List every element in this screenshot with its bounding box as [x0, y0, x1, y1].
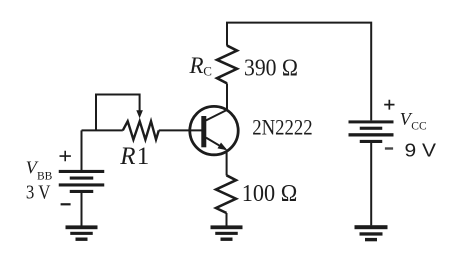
resistor RC — [217, 46, 237, 84]
svg-text:2N2222: 2N2222 — [252, 114, 312, 139]
battery VBB 3V — [59, 170, 105, 193]
wire: emitter to RE — [226, 152, 228, 175]
svg-text:100 Ω: 100 Ω — [242, 180, 297, 207]
svg-text:9 V: 9 V — [405, 140, 437, 160]
wire: top rail from RC to VCC — [227, 23, 371, 121]
plus symbol VCC — [384, 100, 394, 110]
rheostat R1 zigzag — [123, 121, 159, 139]
transistor Q1 2N2222: base bar — [201, 116, 206, 147]
wire: rheostat wiper loop — [96, 95, 140, 131]
wire: collector lead — [226, 83, 228, 110]
rheostat R1 wiper arrowhead — [136, 110, 143, 118]
svg-text:390 Ω: 390 Ω — [244, 55, 298, 82]
svg-text:C: C — [203, 63, 212, 78]
transistor Q1 2N2222: collector stroke — [206, 110, 227, 121]
wire: RE to ground — [226, 213, 228, 226]
svg-text:R: R — [119, 143, 135, 170]
ground (emitter) — [211, 225, 243, 241]
ground (VBB) — [66, 225, 98, 241]
battery VCC 9V — [349, 120, 394, 143]
transistor Q1 2N2222: body circle — [190, 106, 238, 154]
wire: VBB to R1 (horizontal) — [82, 129, 123, 131]
minus symbol VBB — [61, 203, 71, 205]
wire: VBB negative lead — [81, 193, 83, 226]
svg-text:1: 1 — [137, 143, 150, 170]
label VCC — [400, 109, 427, 132]
resistor RE 100 ohm — [216, 175, 236, 213]
plus symbol VBB — [60, 151, 71, 162]
wire: VBB positive lead — [81, 130, 83, 170]
svg-text:CC: CC — [411, 120, 427, 132]
svg-text:R: R — [189, 53, 204, 78]
ground (VCC) — [355, 225, 388, 241]
label RC — [189, 53, 212, 79]
transistor Q1 2N2222: emitter stroke with arrow — [206, 138, 226, 150]
label VBB — [26, 158, 53, 183]
wire: base wire from R1 to base bar — [159, 129, 202, 131]
label R1 — [119, 143, 149, 170]
wire: VCC negative lead — [370, 143, 372, 225]
svg-text:3 V: 3 V — [26, 182, 51, 204]
minus symbol VCC — [385, 147, 393, 149]
